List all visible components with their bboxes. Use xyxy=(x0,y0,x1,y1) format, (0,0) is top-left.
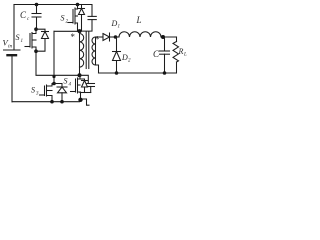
svg-text:L: L xyxy=(183,53,187,58)
svg-text:D: D xyxy=(111,19,118,28)
node top-rail / C junction xyxy=(35,3,39,7)
svg-text:R: R xyxy=(178,47,184,56)
capacitor C (output filter) xyxy=(160,37,170,73)
svg-text:D: D xyxy=(121,53,128,62)
node S1 drain xyxy=(34,27,38,31)
source Vin battery xyxy=(4,50,21,102)
node N1 (D1 cathode / L / D2) xyxy=(114,35,118,39)
svg-text:2: 2 xyxy=(128,59,131,64)
node S3 source on rail xyxy=(50,100,54,104)
resistor RL (load) xyxy=(173,37,179,73)
diode S2 body diode xyxy=(79,5,85,32)
diode D2 (freewheeling) xyxy=(113,37,121,73)
node S3 drain xyxy=(52,82,56,86)
svg-text:S: S xyxy=(16,33,20,42)
capacitor S4 snubber cap xyxy=(80,75,95,92)
wire S1 source to node A (primary bottom) xyxy=(36,51,80,75)
wire top rail xyxy=(14,4,86,6)
node top-rail / S2 drain xyxy=(76,3,80,7)
transistor S4 (MOSFET) xyxy=(71,75,81,100)
transformer core xyxy=(85,32,87,69)
transformer T secondary winding xyxy=(92,37,96,65)
wire secondary bottom to output rail xyxy=(96,65,99,73)
svg-text:S: S xyxy=(64,77,68,86)
diode D1 (output rectifier) xyxy=(103,33,116,41)
wire bottom rail xyxy=(12,101,80,103)
svg-text:in: in xyxy=(8,44,13,50)
diode S3 body diode xyxy=(54,84,67,102)
transistor S3 (MOSFET) xyxy=(40,84,55,102)
transistor S1 (MOSFET) xyxy=(25,29,36,51)
svg-text:1: 1 xyxy=(21,39,24,44)
svg-text:*: * xyxy=(70,32,75,42)
diode S4 body diode xyxy=(80,79,88,93)
inductor L xyxy=(116,32,177,37)
svg-text:C: C xyxy=(20,10,27,20)
svg-text:3: 3 xyxy=(36,92,39,97)
svg-text:c: c xyxy=(27,17,30,22)
wire output bottom rail xyxy=(99,72,176,74)
capacitor S2 snubber cap xyxy=(80,5,97,32)
svg-text:C: C xyxy=(153,49,160,59)
node A (primary bottom / S4 drain) xyxy=(78,73,82,77)
wire secondary top to D1 xyxy=(96,36,104,38)
svg-text:4: 4 xyxy=(69,83,72,88)
svg-text:*: * xyxy=(95,35,100,45)
svg-text:L: L xyxy=(136,15,142,25)
svg-text:S: S xyxy=(31,86,35,95)
wire node-B column (primary top to S3 drain, crossover at y=75.3) xyxy=(53,31,55,83)
diode S1 body diode xyxy=(36,29,49,51)
svg-text:S: S xyxy=(61,14,65,23)
node B (primary top / S2 source) xyxy=(78,29,82,33)
wire left rail xyxy=(13,5,15,51)
node N2 (L / C junction) xyxy=(161,35,165,39)
svg-text:1: 1 xyxy=(118,25,121,30)
capacitor Cc (series blocking cap) xyxy=(32,5,41,28)
node S1 source xyxy=(34,49,38,53)
node S4 source on rail xyxy=(78,98,82,102)
transformer T primary winding xyxy=(80,31,84,75)
node crossover dot xyxy=(52,75,55,78)
transistor S2 (MOSFET) xyxy=(68,5,78,32)
node D2 anode on output rail xyxy=(115,71,119,75)
node C bottom on rail xyxy=(163,71,167,75)
node S3 diode on rail xyxy=(60,100,64,104)
